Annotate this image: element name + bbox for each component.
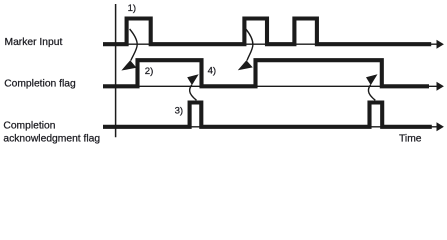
svg-text:4): 4) [208,65,217,76]
curved arrow ack pulse 2 -> completion fall [368,85,375,101]
time axis arrowhead row 1 [437,40,444,49]
svg-text:3): 3) [175,105,184,116]
thin vertical reference line [115,4,117,137]
svg-text:acknowledgment flag: acknowledgment flag [3,133,100,144]
Completion acknowledgment flag signal trace [103,103,432,127]
curved arrow marker pulse 2 -> completion rise [246,29,253,61]
svg-text:Completion flag: Completion flag [4,79,76,90]
curved arrow 3)->4) [190,85,197,101]
Marker Input signal trace [103,19,431,45]
thin low-level reference line row 1 [103,43,438,45]
curved arrow 1)->2) [130,29,138,61]
Completion flag signal trace [103,60,429,86]
svg-text:Marker Input: Marker Input [5,37,63,48]
thin low-level reference line row 2 [103,85,438,87]
svg-text:2): 2) [145,66,154,77]
svg-text:Completion: Completion [3,121,55,132]
time axis arrowhead row 2 [437,82,444,91]
thin low-level reference line row 3 [103,126,438,128]
svg-text:1): 1) [128,3,137,14]
svg-text:Time: Time [399,134,422,145]
time axis arrowhead row 3 [437,122,444,131]
